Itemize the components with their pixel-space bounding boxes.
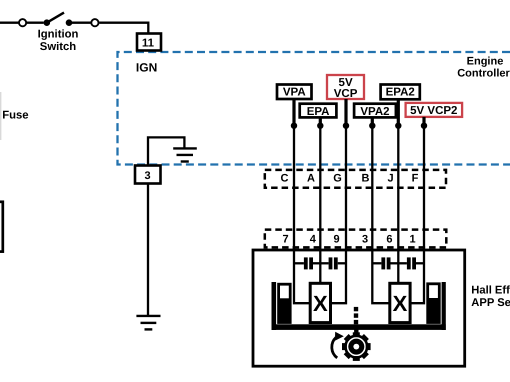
- rotation arrow: [332, 332, 344, 358]
- wire EPA stub: [319, 117, 322, 125]
- svg-text:3: 3: [362, 233, 368, 245]
- magnet left: [279, 284, 291, 322]
- artifact faint left edge line: [0, 92, 2, 140]
- wire from pin 3 to chassis ground: [147, 184, 149, 316]
- net label VPA: [277, 85, 312, 100]
- svg-text:A: A: [307, 173, 315, 185]
- wire from switch to pin 11: [99, 23, 148, 34]
- ignition switch SW1: [19, 13, 99, 27]
- label Hall Effect APP Sensor: [471, 284, 510, 309]
- label Engine Controller: [457, 56, 510, 80]
- wire pin6 internal: [397, 249, 399, 285]
- pedal arm bar: [272, 324, 446, 330]
- connector (letters) dashed housing: [265, 170, 446, 188]
- wire pin4 internal: [319, 249, 321, 285]
- hall element X2: [390, 283, 410, 322]
- pedal pivot gear: [342, 329, 371, 361]
- junction dots: [291, 123, 427, 129]
- svg-text:Ignition: Ignition: [38, 29, 79, 41]
- wire 5V VCP stub: [344, 99, 347, 126]
- svg-text:EPA2: EPA2: [386, 87, 415, 99]
- svg-text:EPA: EPA: [307, 106, 330, 118]
- svg-text:VPA: VPA: [283, 86, 306, 98]
- wire pin7 internal: [294, 249, 311, 304]
- svg-text:3: 3: [145, 170, 151, 182]
- svg-text:Hall Effect: Hall Effect: [471, 284, 510, 296]
- magnet right: [428, 284, 440, 323]
- svg-text:APP Sensor: APP Sensor: [471, 297, 510, 309]
- svg-text:VPA2: VPA2: [360, 106, 389, 118]
- wire EPA run: [319, 126, 321, 250]
- wire 5V VCP2 run: [423, 126, 425, 250]
- net label 5V VCP: [327, 75, 364, 100]
- net label 5V VCP2: [406, 103, 463, 117]
- capacitor C4: [398, 257, 424, 269]
- svg-text:J: J: [387, 173, 393, 185]
- svg-text:Controller: Controller: [457, 68, 510, 80]
- wire from left edge to ignition switch: [0, 22, 19, 24]
- svg-text:C: C: [281, 173, 289, 185]
- connector pin 11: [137, 34, 161, 51]
- chassis ground: [136, 316, 160, 330]
- svg-text:Engine: Engine: [467, 56, 504, 68]
- wire VPA2 stub: [371, 117, 374, 125]
- svg-text:Fuse: Fuse: [2, 110, 28, 122]
- svg-text:G: G: [333, 173, 342, 185]
- svg-text:1: 1: [410, 233, 416, 245]
- svg-text:6: 6: [386, 233, 392, 245]
- wire VPA2 run: [371, 126, 373, 250]
- pedal arm housing right wall: [442, 282, 446, 330]
- wire from pin 3 to internal ground: [148, 137, 184, 165]
- wire EPA2 run: [397, 126, 399, 250]
- net label EPA: [300, 104, 337, 118]
- connector pin 3: [135, 166, 161, 184]
- svg-text:5V VCP2: 5V VCP2: [410, 105, 457, 117]
- wire pin1 internal: [410, 249, 424, 304]
- svg-text:X: X: [313, 291, 328, 316]
- wire VPA run: [293, 126, 295, 250]
- svg-text:9: 9: [333, 233, 339, 245]
- APP sensor enclosure: [253, 250, 465, 366]
- capacitor C3: [372, 257, 398, 269]
- hall element X1: [310, 283, 330, 322]
- label Ignition Switch: [38, 29, 79, 53]
- fuse box cut off at left edge: [0, 202, 3, 252]
- svg-text:4: 4: [310, 233, 317, 245]
- capacitor C1: [294, 257, 320, 269]
- wire VPA stub: [292, 99, 295, 126]
- wire 5V VCP run: [345, 126, 347, 250]
- wire 5V VCP2 stub: [422, 117, 425, 126]
- svg-text:Switch: Switch: [40, 41, 77, 53]
- engine controller dashed boundary: [118, 52, 510, 165]
- pedal arm housing left wall: [272, 282, 277, 330]
- ellipsis dots: [354, 307, 358, 324]
- svg-text:X: X: [393, 291, 408, 316]
- wire EPA2 stub: [397, 99, 400, 125]
- svg-text:VCP: VCP: [334, 88, 358, 100]
- ground (engine controller internal): [173, 148, 197, 161]
- capacitor C2: [320, 257, 346, 269]
- wire pin3 internal: [372, 249, 391, 304]
- svg-text:F: F: [412, 173, 419, 185]
- connector (numbers) dashed housing: [265, 230, 447, 248]
- svg-text:B: B: [362, 173, 370, 185]
- svg-text:11: 11: [142, 38, 155, 50]
- svg-text:7: 7: [282, 233, 288, 245]
- wire pin9 internal: [330, 249, 346, 304]
- net label EPA2: [381, 85, 420, 100]
- svg-text:IGN: IGN: [136, 61, 157, 75]
- net label VPA2: [354, 104, 396, 118]
